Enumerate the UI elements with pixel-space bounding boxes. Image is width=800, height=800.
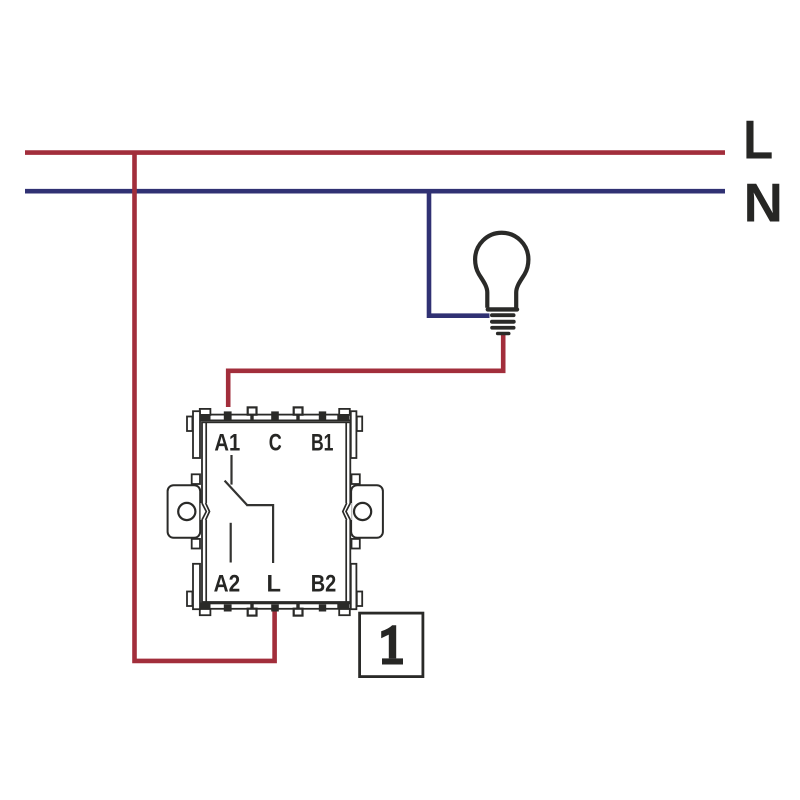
wire blue neutral drop to lamp [429, 191, 490, 316]
svg-text:B1: B1 [311, 431, 334, 457]
module terminal tab B1 (black) [319, 411, 326, 420]
module left side plate bottom [193, 564, 200, 609]
lamp E1 bulb glass [475, 233, 528, 308]
module right small tab above ear [352, 474, 360, 484]
lamp E1 base contact cap [496, 332, 511, 336]
module bottom corner tab right (open) [339, 609, 350, 615]
wire red feed from L bus down-left [135, 153, 275, 661]
module top rail [200, 415, 352, 421]
label box 1 frame [360, 613, 423, 677]
module bottom open tab between L-B2 [294, 609, 303, 616]
lamp E1 screw thread 1 [490, 313, 516, 317]
module right side plate top [351, 411, 357, 458]
module bottom rail [200, 603, 352, 608]
module left mounting ear [168, 485, 201, 538]
module bottom rail corner clamp right (black) [337, 603, 349, 609]
module left corner small rect bottom [187, 592, 192, 607]
wire N line (blue neutral bus) [25, 189, 725, 194]
module right corner small rect top [357, 417, 362, 432]
module right corner small rect bottom [357, 592, 362, 607]
svg-text:A1: A1 [214, 431, 240, 457]
module right side plate bottom [351, 564, 357, 609]
switch lead to A2 [230, 523, 232, 563]
svg-text:B2: B2 [311, 571, 337, 597]
svg-text:A2: A2 [214, 571, 241, 597]
switch lead from A1 [230, 455, 232, 485]
module right mounting ear [351, 485, 383, 538]
label box digit 1 [381, 625, 396, 658]
module left side plate top [193, 411, 200, 458]
switch contact symbol [225, 455, 274, 563]
module top corner tab left (open) [200, 409, 211, 415]
switch link to L [246, 505, 273, 563]
svg-text:L: L [266, 571, 280, 597]
switch blade [225, 481, 248, 506]
module top corner tab right (open) [339, 409, 350, 415]
module right small tab below ear [352, 539, 360, 549]
lamp E1 screw thread 2 [490, 320, 516, 324]
svg-text:L: L [743, 110, 773, 171]
switch module SW1 [168, 407, 383, 615]
svg-text:C: C [269, 431, 282, 457]
svg-text:N: N [744, 171, 784, 233]
module top open tab between C-B1 [294, 407, 303, 414]
module terminal tab A2 (black) [224, 604, 232, 611]
module terminal tab L (black) [271, 604, 279, 611]
module top rail corner clamp left (black) [200, 415, 210, 421]
module right wall notch [345, 503, 352, 520]
wire L line (red phase bus) [25, 150, 725, 155]
lamp E1 glass base line [488, 307, 517, 311]
module top open tab between A1-C [248, 407, 257, 414]
module body inner wall left [205, 423, 207, 602]
module top rail corner clamp right (black) [337, 415, 349, 421]
module body inner wall right [345, 423, 347, 602]
module left ear screw hole [178, 503, 195, 520]
module terminal tab B2 (black) [319, 604, 326, 611]
wire red from lamp to terminal A1 [228, 335, 503, 407]
module bottom open tab between A2-L [248, 609, 257, 616]
module right ear screw hole [354, 503, 371, 520]
module left small tab below ear [192, 539, 200, 549]
module left small tab above ear [192, 474, 200, 484]
module left wall notch [201, 503, 208, 520]
module bottom rail corner clamp left (black) [200, 603, 210, 609]
module terminal tab A1 (black) [224, 411, 232, 420]
module terminal tab C (black) [271, 411, 279, 420]
module body outer wall [202, 422, 350, 602]
lamp E1 screw thread 3 [490, 326, 515, 330]
module bottom corner tab left (open) [200, 609, 211, 615]
module left corner small rect top [187, 417, 192, 432]
